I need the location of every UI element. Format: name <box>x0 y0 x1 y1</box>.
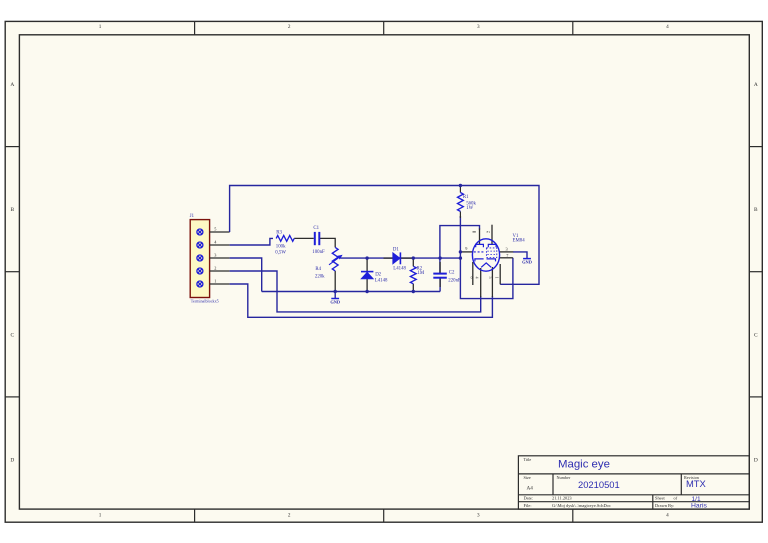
svg-text:B: B <box>754 207 758 213</box>
svg-text:Number: Number <box>557 475 571 480</box>
svg-text:5: 5 <box>214 226 216 231</box>
svg-text:1: 1 <box>214 278 216 283</box>
svg-text:220nF: 220nF <box>448 278 461 283</box>
svg-text:D: D <box>10 458 14 464</box>
svg-text:100nF: 100nF <box>312 250 325 255</box>
svg-text:C1: C1 <box>313 226 319 231</box>
svg-text:2: 2 <box>288 512 291 518</box>
svg-text:220k: 220k <box>315 275 325 280</box>
svg-text:1: 1 <box>99 512 102 518</box>
svg-text:GND: GND <box>330 299 340 304</box>
svg-text:1W: 1W <box>466 206 473 211</box>
svg-text:R1: R1 <box>463 195 469 200</box>
svg-text:R4: R4 <box>315 267 321 272</box>
svg-text:MTX: MTX <box>686 478 707 489</box>
svg-text:100k: 100k <box>276 244 286 249</box>
svg-text:A4: A4 <box>527 486 534 492</box>
svg-text:3: 3 <box>477 512 480 518</box>
svg-text:5: 5 <box>488 277 493 279</box>
svg-text:20210501: 20210501 <box>578 479 620 490</box>
svg-text:C2: C2 <box>449 271 455 276</box>
svg-text:1: 1 <box>99 24 102 30</box>
svg-text:File:: File: <box>524 503 532 508</box>
svg-text:R3: R3 <box>276 231 282 236</box>
svg-text:L4148: L4148 <box>375 278 388 283</box>
svg-text:3: 3 <box>506 246 508 251</box>
svg-text:Size: Size <box>524 475 531 480</box>
svg-text:C: C <box>754 332 758 338</box>
svg-text:3: 3 <box>477 24 480 30</box>
svg-text:Magic eye: Magic eye <box>558 459 610 471</box>
svg-text:A: A <box>754 82 758 88</box>
svg-text:9: 9 <box>465 246 467 251</box>
svg-text:21.11.2023: 21.11.2023 <box>552 496 572 501</box>
svg-text:3: 3 <box>214 252 216 257</box>
svg-text:Terminalblockx5: Terminalblockx5 <box>191 298 219 303</box>
svg-text:D1: D1 <box>393 248 399 253</box>
svg-text:J1: J1 <box>190 214 195 219</box>
svg-text:0,5W: 0,5W <box>275 251 286 256</box>
svg-text:1: 1 <box>494 277 499 279</box>
svg-text:4: 4 <box>666 24 669 30</box>
svg-text:D2: D2 <box>375 272 381 277</box>
svg-text:EM84: EM84 <box>513 239 526 244</box>
svg-text:Date:: Date: <box>524 496 534 501</box>
svg-text:C: C <box>10 332 14 338</box>
svg-text:Drawn By:: Drawn By: <box>655 503 674 508</box>
svg-text:of: of <box>674 496 678 501</box>
svg-text:2: 2 <box>214 265 216 270</box>
svg-text:F1: F1 <box>487 230 491 234</box>
svg-text:A: A <box>10 82 14 88</box>
svg-text:2: 2 <box>288 24 291 30</box>
svg-text:GND: GND <box>522 260 532 265</box>
svg-text:4: 4 <box>666 512 669 518</box>
svg-text:L4148: L4148 <box>393 267 406 272</box>
svg-text:Haris: Haris <box>691 502 707 509</box>
svg-text:4: 4 <box>475 277 480 279</box>
svg-text:D: D <box>754 458 758 464</box>
svg-text:G:\Moj dysk\..\magiceye.SchDoc: G:\Moj dysk\..\magiceye.SchDoc <box>552 503 611 508</box>
svg-text:Title: Title <box>524 457 532 462</box>
svg-text:Sheet: Sheet <box>655 496 666 501</box>
svg-text:B: B <box>10 207 14 213</box>
svg-text:1M: 1M <box>418 271 425 276</box>
svg-text:8: 8 <box>470 277 475 279</box>
